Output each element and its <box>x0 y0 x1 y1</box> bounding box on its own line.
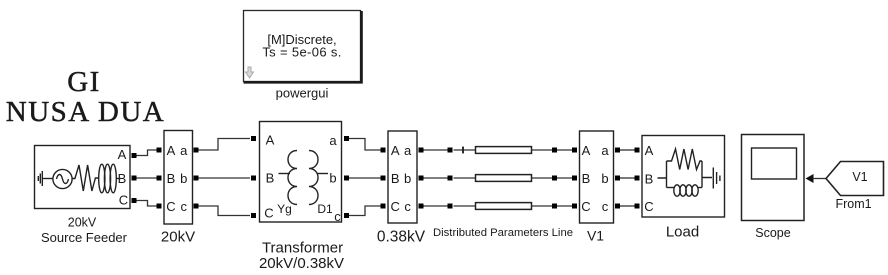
wire transformer a to 0.38kV A <box>349 139 381 151</box>
svg-text:c: c <box>602 199 609 214</box>
source port A <box>132 153 137 158</box>
source feeder block 20kV Source Feeder <box>35 146 131 209</box>
svg-text:B: B <box>167 171 176 186</box>
svg-text:c: c <box>181 199 188 214</box>
svg-text:A: A <box>391 143 400 158</box>
source port B <box>132 176 137 181</box>
svg-text:B: B <box>266 171 275 186</box>
svg-text:b: b <box>180 171 187 186</box>
wire 20kV a to transformer A <box>199 139 251 151</box>
svg-text:20kV: 20kV <box>161 229 195 246</box>
load icon ground <box>713 168 720 189</box>
svg-text:C: C <box>119 193 128 208</box>
V1 ports right <box>615 148 620 153</box>
wire 0.38kV c to line C <box>424 205 449 207</box>
load block <box>642 136 725 218</box>
svg-text:c: c <box>334 209 341 224</box>
svg-text:b: b <box>601 171 608 186</box>
source icon ground <box>38 171 42 186</box>
svg-text:Source Feeder: Source Feeder <box>41 230 128 245</box>
title GI NUSA DUA <box>6 66 165 128</box>
measurement block 20kV <box>164 131 193 225</box>
transformer ports right <box>344 136 349 141</box>
wire source B to 20kV B <box>137 177 157 179</box>
transformer left winding <box>288 151 297 205</box>
wire 0.38kV b to line B <box>424 177 449 179</box>
source icon inductor <box>99 164 121 193</box>
transformer block <box>260 122 342 225</box>
measurement block V1 <box>580 131 614 223</box>
wire 0.38kV a to line A <box>424 149 449 151</box>
20kV ports right <box>194 148 199 153</box>
wire 20kV b to transformer B <box>199 177 251 179</box>
load icon resistor <box>667 149 703 170</box>
wire V1 a to load A <box>620 149 635 151</box>
svg-text:a: a <box>180 143 188 158</box>
svg-text:GI: GI <box>67 66 101 98</box>
svg-text:V1: V1 <box>587 228 604 244</box>
wire transformer b to 0.38kV B <box>349 177 381 179</box>
svg-text:B: B <box>645 172 654 187</box>
svg-text:C: C <box>581 199 590 214</box>
0.38kV ports right <box>419 148 424 153</box>
svg-text:V1: V1 <box>852 170 867 184</box>
source icon resistor <box>72 165 98 191</box>
load icon inductor <box>667 185 703 196</box>
svg-text:a: a <box>404 143 412 158</box>
svg-text:A: A <box>118 147 127 162</box>
svg-text:A: A <box>582 143 591 158</box>
wire transformer c to 0.38kV C <box>349 206 381 216</box>
source icon AC source <box>42 169 72 188</box>
load ports <box>635 148 640 153</box>
svg-text:A: A <box>645 143 654 158</box>
measurement block 0.38kV <box>388 131 417 223</box>
svg-text:B: B <box>582 171 591 186</box>
scope input arrowhead <box>806 174 814 183</box>
svg-text:a: a <box>601 143 609 158</box>
svg-text:D1: D1 <box>317 202 333 216</box>
svg-text:C: C <box>644 199 653 214</box>
svg-text:NUSA DUA: NUSA DUA <box>6 96 165 128</box>
svg-text:b: b <box>329 171 336 186</box>
powergui block <box>244 11 362 83</box>
20kV ports left <box>157 148 162 153</box>
svg-text:C: C <box>264 206 273 221</box>
wire source C to 20kV C <box>137 201 157 207</box>
svg-text:B: B <box>391 171 400 186</box>
from1 tag <box>826 162 884 196</box>
transformer right winding <box>309 151 318 205</box>
transformer ports left <box>251 136 256 141</box>
transformer leads <box>279 173 291 175</box>
0.38kV ports left <box>381 148 386 153</box>
svg-text:Scope: Scope <box>755 226 790 240</box>
svg-text:Ts = 5e-06 s.: Ts = 5e-06 s. <box>262 45 341 60</box>
svg-text:A: A <box>167 143 176 158</box>
svg-text:Transformer: Transformer <box>262 240 343 257</box>
svg-text:From1: From1 <box>835 197 871 211</box>
wire 20kV c to transformer C <box>199 206 251 216</box>
wire V1 c to load C <box>620 205 635 207</box>
wire source A to 20kV A <box>137 150 157 156</box>
wire from1 to scope <box>813 178 827 180</box>
V1 ports left <box>572 148 577 153</box>
svg-text:powergui: powergui <box>276 86 329 101</box>
scope block <box>742 135 805 221</box>
wire V1 b to load B <box>620 177 635 179</box>
load icon frame <box>658 161 713 188</box>
powergui gray arrow icon <box>246 67 254 78</box>
svg-text:Distributed Parameters Line: Distributed Parameters Line <box>433 227 573 239</box>
svg-text:20kV/0.38kV: 20kV/0.38kV <box>259 255 344 272</box>
svg-text:20kV: 20kV <box>68 216 97 230</box>
svg-text:C: C <box>166 199 175 214</box>
svg-text:C: C <box>391 199 400 214</box>
svg-text:a: a <box>329 133 337 148</box>
svg-text:A: A <box>266 133 275 148</box>
distributed line phase C <box>448 203 574 210</box>
source port C <box>132 198 137 203</box>
distributed line phase A <box>448 147 574 154</box>
svg-text:Load: Load <box>666 224 699 241</box>
svg-text:c: c <box>404 199 411 214</box>
distributed line phase B <box>448 175 574 182</box>
svg-text:0.38kV: 0.38kV <box>377 229 426 246</box>
svg-text:Yg: Yg <box>277 202 292 216</box>
svg-text:b: b <box>404 171 411 186</box>
